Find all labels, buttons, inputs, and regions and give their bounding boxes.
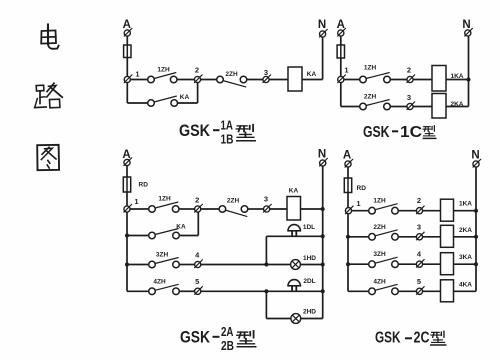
svg-text:KA: KA (289, 188, 299, 195)
svg-text:2: 2 (195, 66, 199, 75)
svg-text:1ZH: 1ZH (158, 196, 171, 203)
svg-text:1ZH: 1ZH (373, 198, 386, 205)
svg-text:4KA: 4KA (459, 281, 472, 288)
svg-text:2HD: 2HD (303, 309, 316, 316)
svg-text:GSK: GSK (180, 328, 210, 346)
svg-text:1: 1 (356, 199, 360, 208)
svg-text:2KA: 2KA (459, 227, 472, 234)
svg-text:2ZH: 2ZH (364, 94, 377, 101)
svg-text:1DL: 1DL (303, 224, 315, 231)
svg-text:2B: 2B (221, 338, 234, 353)
svg-text:2ZH: 2ZH (227, 198, 240, 205)
svg-text:1: 1 (344, 66, 348, 75)
svg-text:A: A (123, 19, 131, 31)
svg-text:2ZH: 2ZH (373, 224, 386, 231)
svg-text:GSK: GSK (363, 124, 390, 141)
svg-text:3: 3 (264, 195, 268, 204)
svg-text:KA: KA (176, 224, 186, 231)
svg-text:1HD: 1HD (303, 255, 316, 262)
svg-text:1ZH: 1ZH (364, 65, 377, 72)
svg-text:2: 2 (407, 66, 411, 75)
svg-text:1B: 1B (221, 132, 234, 147)
svg-text:1A: 1A (221, 118, 234, 133)
svg-text:3: 3 (264, 68, 268, 77)
svg-text:N: N (471, 150, 479, 162)
svg-text:2: 2 (417, 196, 421, 205)
svg-text:KA: KA (180, 94, 190, 101)
svg-text:N: N (318, 149, 326, 161)
svg-text:GSK: GSK (179, 122, 210, 140)
svg-text:RD: RD (139, 182, 149, 189)
svg-text:N: N (462, 19, 470, 31)
svg-text:3: 3 (407, 93, 411, 102)
svg-text:2C: 2C (414, 329, 430, 346)
svg-text:KA: KA (307, 71, 317, 78)
svg-text:4ZH: 4ZH (373, 278, 386, 285)
svg-text:5: 5 (417, 277, 421, 286)
svg-text:3ZH: 3ZH (373, 251, 386, 258)
svg-text:3ZH: 3ZH (156, 252, 169, 259)
svg-text:1KA: 1KA (459, 201, 472, 208)
svg-text:1C: 1C (400, 124, 422, 141)
svg-text:2: 2 (195, 196, 199, 205)
svg-text:2ZH: 2ZH (225, 71, 238, 78)
svg-text:3KA: 3KA (459, 254, 472, 261)
svg-text:A: A (343, 150, 351, 162)
svg-text:3: 3 (417, 222, 421, 231)
svg-text:RD: RD (357, 185, 367, 192)
svg-text:1: 1 (135, 70, 139, 79)
svg-text:4ZH: 4ZH (153, 279, 166, 286)
svg-text:1ZH: 1ZH (157, 67, 170, 74)
svg-text:5: 5 (195, 277, 199, 286)
svg-text:2DL: 2DL (303, 278, 315, 285)
svg-text:1: 1 (134, 197, 138, 206)
svg-text:GSK: GSK (375, 329, 401, 346)
svg-text:N: N (318, 19, 326, 31)
